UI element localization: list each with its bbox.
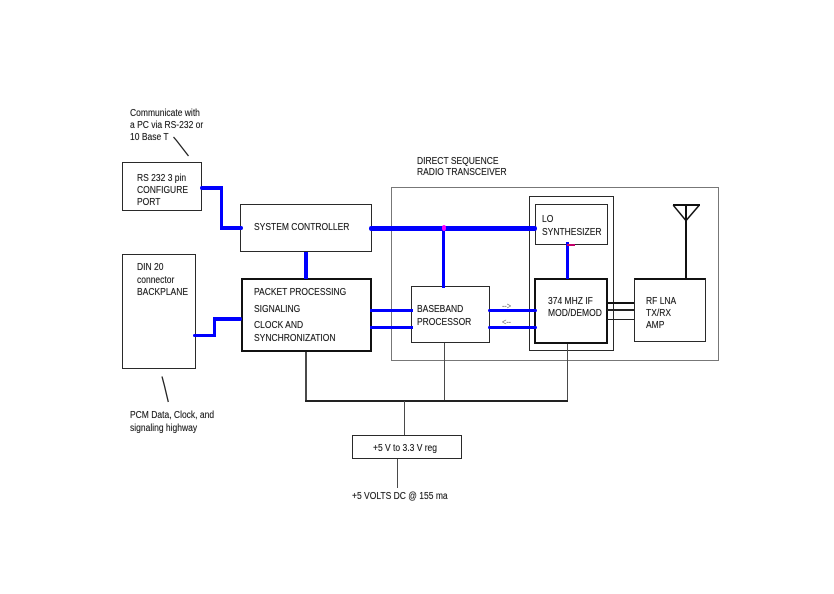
wire: system controller to LO synthesizer trunk — [369, 226, 536, 231]
block: LO SYNTHESIZER — [535, 204, 608, 245]
IF to RF link line 3 — [607, 319, 634, 320]
block: SYSTEM CONTROLLER U1 — [240, 204, 372, 252]
wire: baseband to 374 MHZ IF (lower, RX) — [488, 326, 537, 329]
IF to RF link line 1 — [607, 302, 634, 304]
wire: backplane vertical jog — [213, 317, 216, 337]
junction mark (magenta) at LO synthesizer output — [567, 244, 575, 246]
IF to RF link line 2 — [607, 309, 634, 310]
note: PCM Data, Clock, and signaling highway — [130, 410, 214, 435]
antenna ANT1 top bar — [673, 204, 700, 206]
wire: backplane into packet processing — [213, 317, 243, 321]
antenna ANT1 diagonals — [673, 205, 686, 220]
wire: baseband to 374 MHZ IF (upper, TX) — [488, 309, 537, 312]
antenna ANT1 mast — [685, 205, 686, 279]
label: +5 VOLTS DC @ 155 ma — [352, 491, 448, 503]
direction label left-arrow — [502, 316, 511, 328]
wire: LO synthesizer down to 374 MHZ IF mod/demod — [566, 242, 569, 279]
wire: packet processing to baseband (upper) — [370, 309, 413, 312]
wire: backplane to packet processing (horizontal from DIN box) — [193, 334, 216, 338]
outer box: DIRECT SEQUENCE RADIO TRANSCEIVER enclosure — [391, 187, 719, 361]
wire: trunk down to baseband processor — [442, 228, 445, 288]
block: DIN 20 connector BACKPLANE — [122, 254, 196, 369]
label: DIRECT SEQUENCE RADIO TRANSCEIVER — [417, 156, 507, 179]
wire: RS-232 port to system controller (horizontal from port) — [200, 186, 223, 190]
wire: RS-232 to system controller (horizontal into controller) — [220, 226, 244, 230]
block: 374 MHZ IF MOD/DEMOD — [534, 278, 608, 344]
power feed down to regulator — [404, 401, 405, 435]
wire: packet processing to baseband (lower) — [370, 326, 413, 329]
block: PACKET PROCESSING SIGNALING CLOCK AND SYNCHRONIZATION — [241, 278, 372, 352]
power line from 374 MHZ IF — [567, 344, 568, 401]
power input line below regulator — [397, 459, 398, 489]
wire: system controller down to packet processing — [304, 252, 307, 279]
junction node (magenta) on trunk — [442, 225, 446, 231]
block: BASEBAND PROCESSOR — [411, 286, 490, 344]
power bus — [305, 400, 568, 402]
power line from packet processing — [305, 352, 306, 401]
note: Communicate with a PC via RS-232 or 10 Base T — [130, 108, 203, 144]
block: RS 232 3 pin CONFIGURE PORT — [122, 162, 202, 211]
block: +5 V to 3.3 V reg — [352, 435, 462, 459]
power line from baseband processor — [444, 343, 445, 401]
direction label right-arrow — [502, 300, 511, 312]
inner enclosure around LO and IF sections — [529, 196, 615, 352]
wire: RS-232 vertical segment — [220, 186, 223, 230]
block: RF LNA TX/RX AMP — [634, 278, 706, 342]
